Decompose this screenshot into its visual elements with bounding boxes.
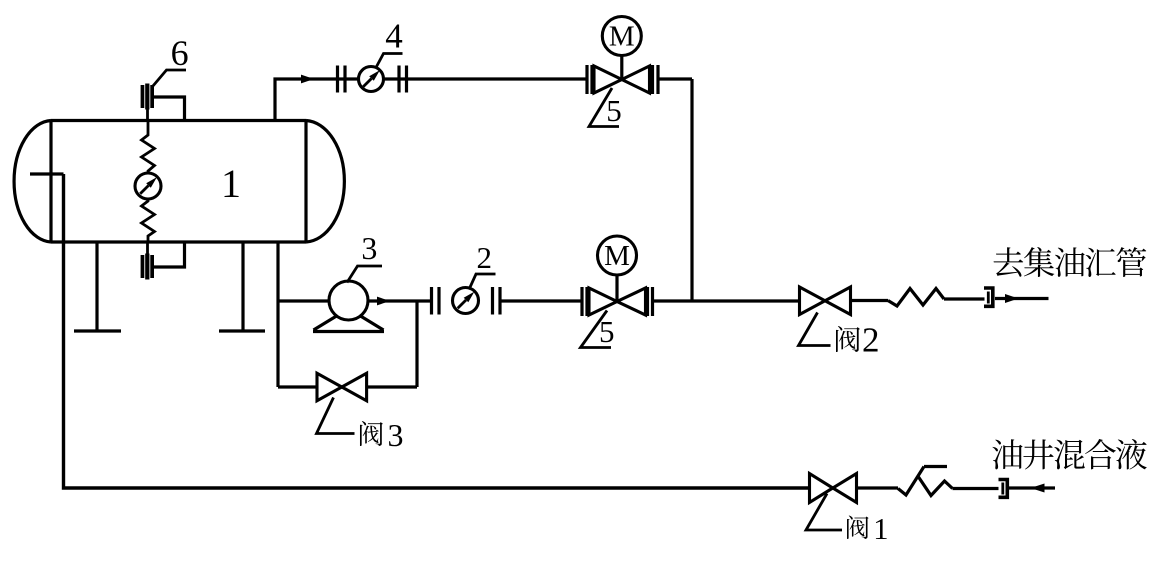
svg-text:3: 3 [361, 230, 377, 266]
top nozzle flange stack 6 [141, 84, 154, 110]
inlet zigzag fitting with branch [898, 467, 953, 496]
meter 2 right flange [493, 287, 501, 315]
leader line V3 [317, 398, 355, 434]
motor M actuator 5b [598, 236, 637, 275]
label V3 [360, 417, 404, 453]
outgoing arrow line [995, 294, 1049, 303]
vessel 1 right head [306, 121, 344, 243]
label V1 [847, 512, 889, 546]
pipe valve 1 to fitting [857, 486, 899, 489]
meter 2 [453, 288, 479, 314]
inlet main pipe [64, 174, 810, 488]
motor valve 5a body [594, 66, 650, 93]
meter 4 right flange [399, 66, 407, 93]
flow arrow after pump [377, 297, 390, 306]
leader line 4 [376, 54, 403, 68]
valve V1 body [810, 474, 857, 503]
leader line 6 [153, 70, 187, 87]
top nozzle stem [146, 108, 149, 121]
label 5a [606, 93, 622, 128]
pump suction pipe [278, 299, 330, 302]
pump 3 [313, 281, 384, 332]
pipe zigzag to battery limit [944, 297, 985, 300]
vessel 1 left head [14, 121, 51, 243]
valve V3 body [317, 373, 367, 400]
bottom nozzle stem [146, 242, 149, 254]
motor valve 5b left flange [582, 287, 587, 316]
svg-text:2: 2 [862, 321, 880, 360]
svg-text:1: 1 [873, 512, 888, 546]
svg-text:3: 3 [388, 417, 404, 453]
bypass pipe right and riser [367, 301, 417, 387]
label 4 [385, 17, 403, 56]
bottom nozzle loop pipe [153, 242, 185, 267]
pump discharge pipe [368, 299, 432, 302]
heater element upper zigzag [142, 121, 155, 174]
leader line 2 [469, 274, 496, 290]
label 2 [477, 240, 493, 275]
pipe valve 5b through junction to valve 2 [653, 299, 800, 302]
motor valve 5a left flange [587, 65, 592, 94]
right support leg [219, 242, 265, 331]
flow arrow on gas pipe [301, 75, 314, 84]
svg-text:6: 6 [171, 33, 189, 73]
text you jing hun he ye [992, 439, 1147, 470]
leader line V1 [806, 494, 842, 531]
top nozzle loop pipe [153, 97, 185, 121]
label V2 [836, 321, 880, 360]
motor valve 5a stem [620, 56, 623, 80]
valve V2 body [800, 287, 851, 315]
svg-text:M: M [609, 21, 635, 53]
pipe meter 2 to valve 5b [500, 299, 582, 302]
pipe valve 2 to expansion loop [851, 299, 889, 302]
bottom nozzle flange stack [141, 254, 154, 280]
left support leg [74, 242, 121, 331]
motor valve 5b right flange [648, 287, 653, 316]
svg-text:5: 5 [606, 93, 622, 128]
text qu ji you hui guan [994, 247, 1147, 277]
label 3 [361, 230, 377, 266]
expansion zigzag [888, 289, 944, 307]
vessel 1 shell body [51, 121, 306, 243]
riser pipe down to junction [690, 79, 693, 301]
meter 2 left flange [432, 287, 440, 315]
motor valve 5b body [589, 288, 646, 315]
svg-text:M: M [604, 240, 630, 272]
motor M actuator 5a [602, 17, 641, 56]
incoming arrow line [1007, 484, 1055, 493]
gauge on heater string [135, 173, 161, 199]
leader line 5b [581, 311, 612, 348]
label 1 [221, 161, 241, 206]
dip tube inside vessel [30, 172, 64, 175]
motor valve 5a right flange [653, 65, 659, 94]
svg-text:1: 1 [221, 161, 241, 206]
pipe valve 5a to riser [658, 77, 692, 80]
leader line 3 [347, 266, 382, 283]
svg-text:2: 2 [477, 240, 493, 275]
feed pipe from tank bottom [276, 242, 279, 387]
battery-limit bracket A [984, 288, 993, 306]
svg-text:4: 4 [385, 17, 403, 56]
battery-limit bracket B [999, 480, 1008, 498]
label 6 [171, 33, 189, 73]
leader line V2 [799, 313, 831, 346]
leader line 5a [589, 88, 619, 127]
motor valve 5b stem [615, 276, 618, 302]
label 5b [599, 314, 615, 349]
meter 4 left flange [338, 66, 346, 93]
meter 4 [359, 67, 384, 92]
svg-text:5: 5 [599, 314, 615, 349]
gas outlet pipe (tank top to valve 5) [275, 79, 587, 121]
heater element lower zigzag [142, 199, 155, 242]
bypass pipe left [278, 385, 317, 388]
pipe fitting to battery limit [953, 487, 999, 490]
